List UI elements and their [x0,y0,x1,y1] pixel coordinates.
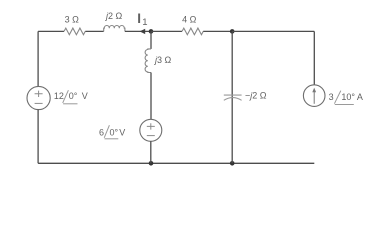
voltage source 6/0 V (circle) [140,119,162,141]
node C (bottom middle junction) [149,161,154,166]
plus sign of 12V source [35,91,43,97]
wire: node A down to j3 inductor [150,31,152,49]
resistor 4 ohm [182,28,203,35]
svg-text:3 Ω: 3 Ω [65,14,80,24]
svg-text:A: A [357,92,363,102]
svg-text:j3 Ω: j3 Ω [154,55,172,65]
svg-text:10°: 10° [341,92,355,102]
minus sign of 6V source [147,135,155,137]
node B (top capacitor junction) [230,29,235,34]
svg-text:3: 3 [329,92,334,102]
plus sign of 6V source [147,123,155,129]
svg-text:−j2 Ω: −j2 Ω [245,91,267,101]
wire: left vertical lower segment [37,110,39,164]
capacitor -j2 ohm: flat plate [224,94,242,96]
svg-text:V: V [119,128,125,138]
wire: left vertical upper segment [37,31,39,86]
wire: 6V source to node C [150,141,152,163]
wire: j3 inductor to 6V source [150,73,152,120]
wire: between 3-ohm resistor and j2 inductor [85,30,103,32]
current source 3/10 A (circle) [303,85,325,107]
node A (top middle junction) [149,29,154,34]
svg-text:j2 Ω: j2 Ω [105,11,123,21]
wire: top-left horizontal lead to 3-ohm resistor [38,30,64,32]
svg-text:0°: 0° [110,128,119,138]
svg-text:I1: I1 [137,11,147,28]
svg-text:12: 12 [54,91,64,101]
voltage source 12/0 V (circle) [27,86,50,109]
node D (bottom capacitor junction) [230,161,235,166]
inductor j3 ohm (vertical) [145,49,151,73]
minus sign of 12V source [35,102,43,104]
current source arrow (points up) [313,91,315,104]
current arrow I1 (points left) [140,29,146,34]
svg-text:0°: 0° [69,91,78,101]
svg-text:V: V [82,91,88,101]
wire: capacitor branch vertical (node B to node D) [231,31,233,163]
wire: inductor to node A [125,30,151,32]
wire: node A to 4-ohm resistor [151,30,182,32]
wire: node B to top-right corner [232,30,314,32]
svg-text:6: 6 [99,128,104,138]
wire: right vertical upper segment [313,31,315,85]
wire: bottom horizontal [38,162,314,164]
svg-text:4 Ω: 4 Ω [182,15,197,25]
inductor j2 ohm [104,25,125,31]
resistor 3 ohm [64,28,85,35]
wire: 4-ohm resistor to node B [203,30,232,32]
capacitor -j2 ohm: curved plate [224,98,242,101]
